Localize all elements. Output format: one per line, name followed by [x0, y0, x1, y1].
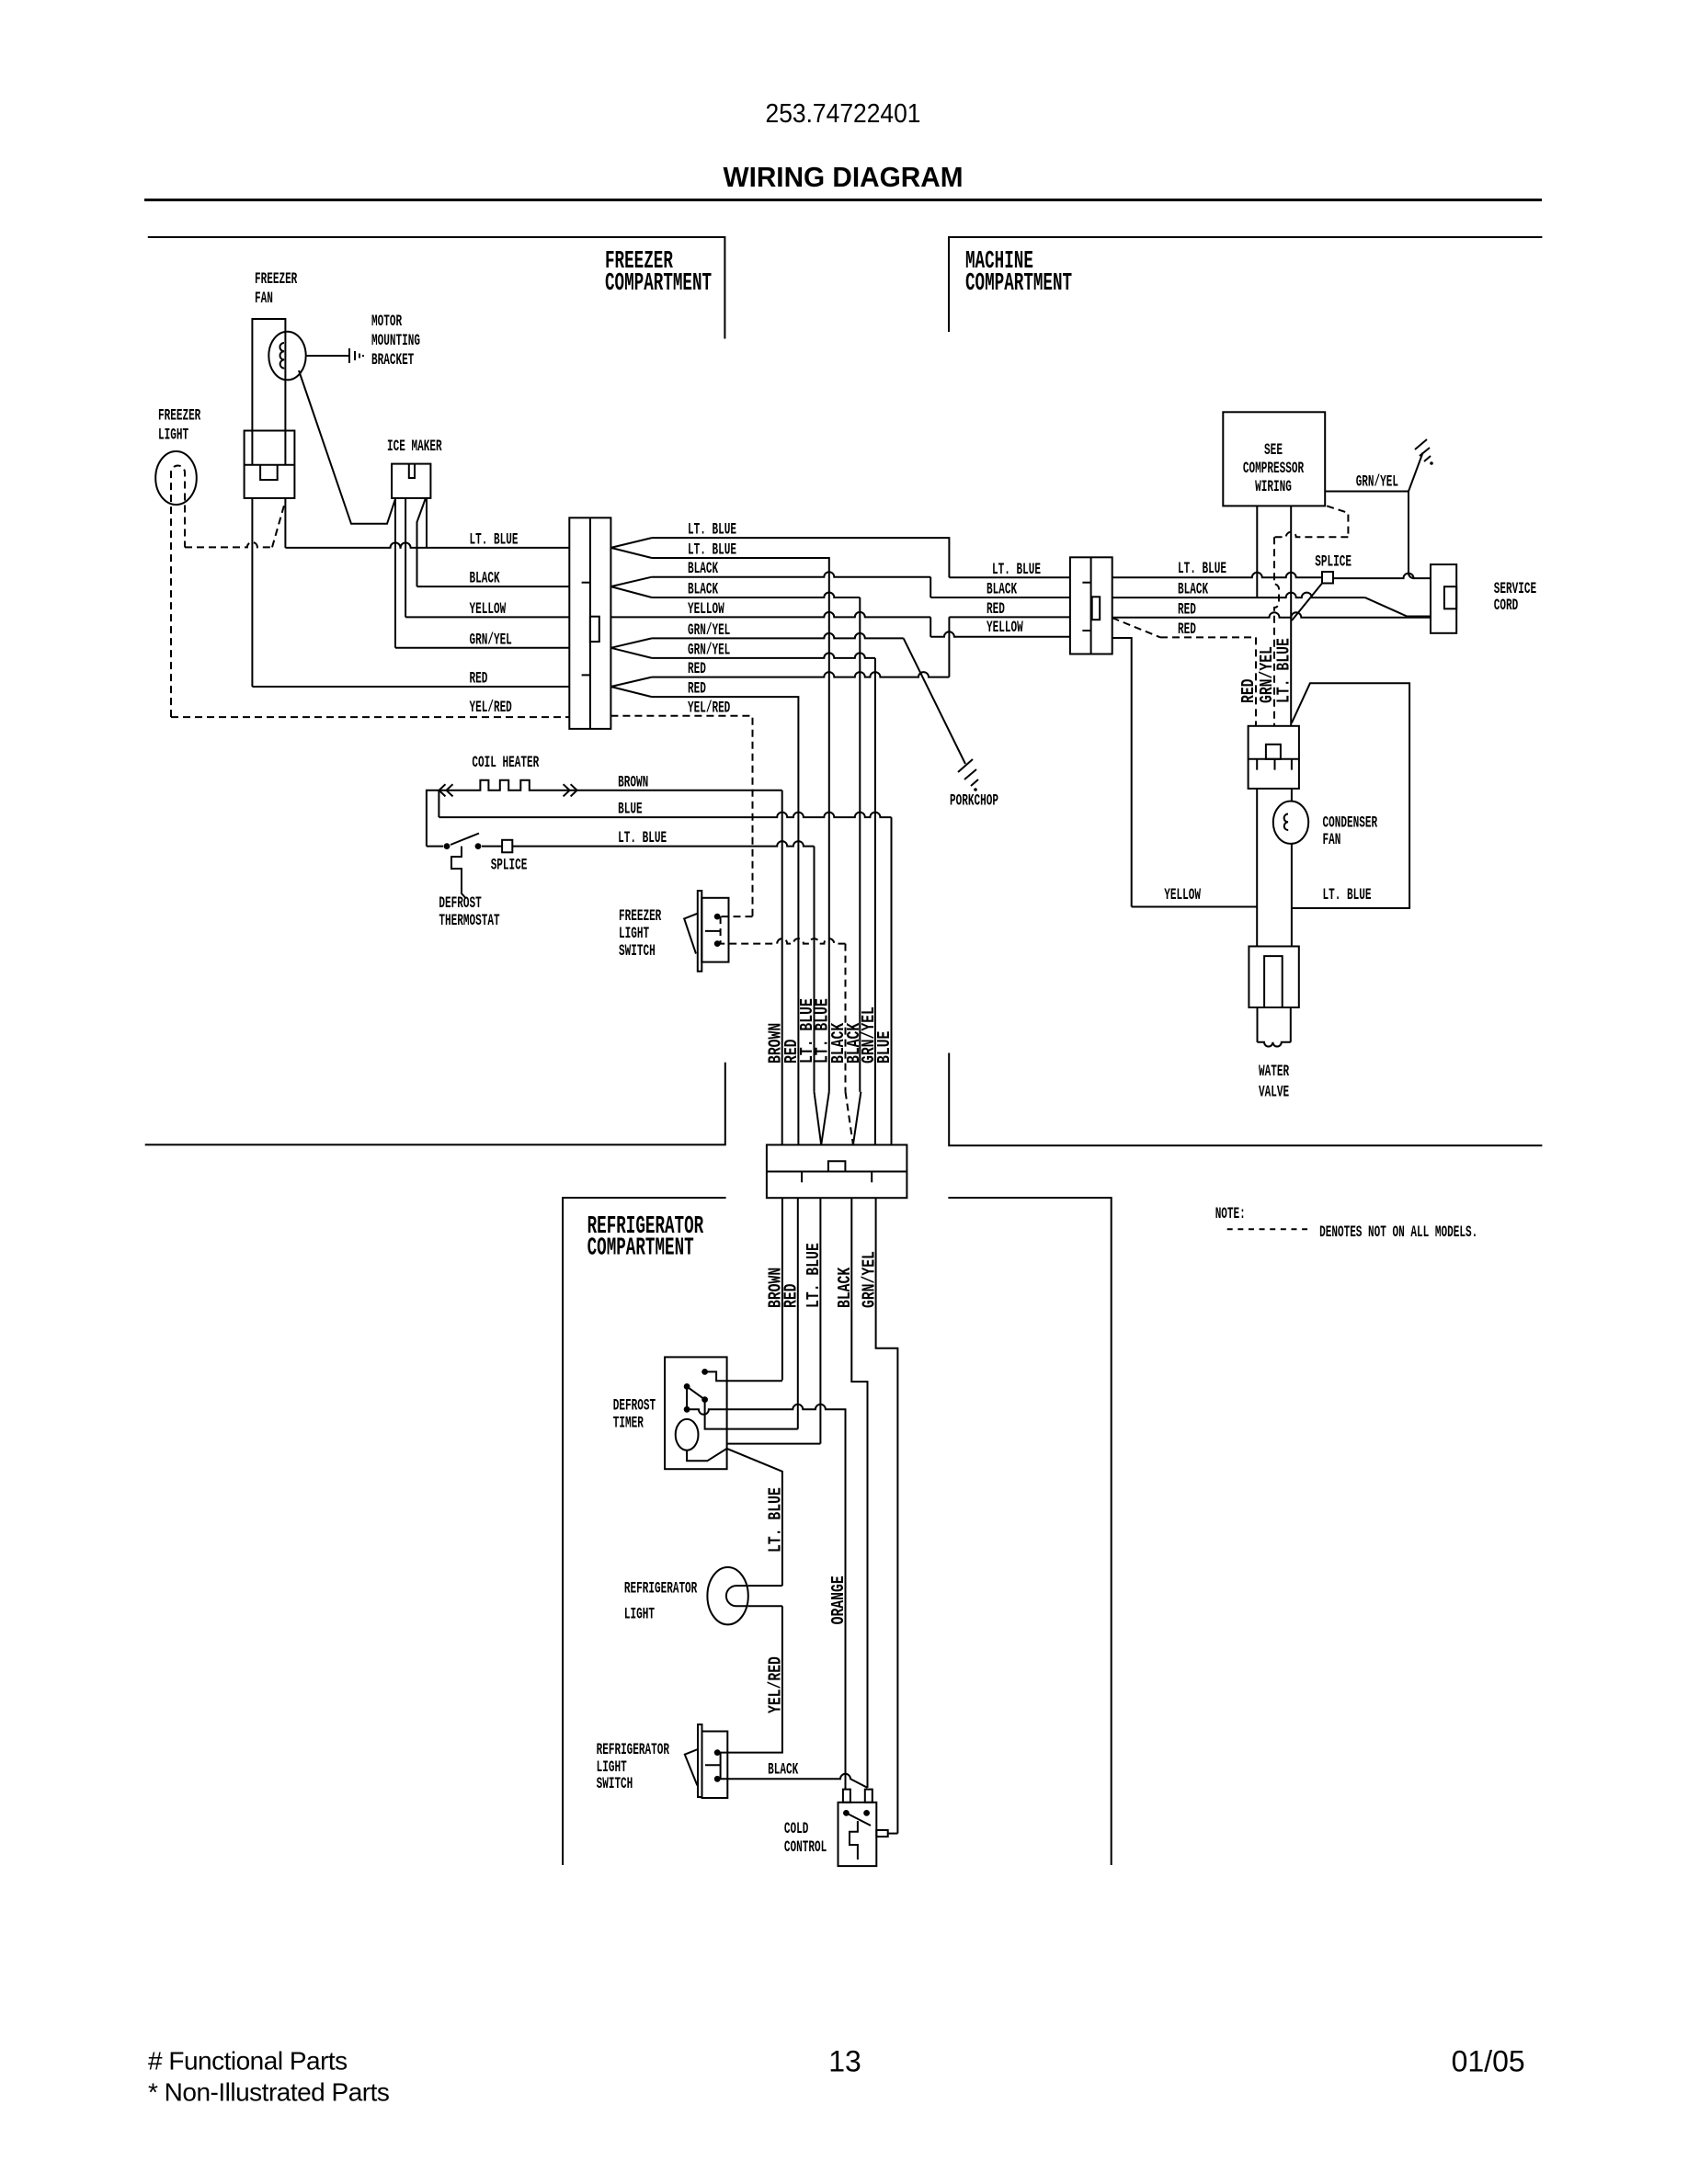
timer switch arm — [687, 1386, 705, 1399]
ice maker pin yellow — [405, 498, 406, 618]
splice diagonal to compressor — [1292, 584, 1322, 621]
freezer light bulb — [155, 451, 197, 505]
svg-text:RED: RED — [688, 680, 706, 699]
svg-text:BRACKET: BRACKET — [371, 351, 414, 370]
ice maker notch — [409, 464, 415, 478]
motor ground lead — [306, 355, 349, 357]
freezer light switch box — [701, 898, 728, 962]
refrigerator light switch plate — [698, 1724, 702, 1797]
cold control right pin — [876, 1830, 887, 1837]
svg-text:RED: RED — [688, 660, 706, 678]
yel/red dashed to switch — [717, 916, 752, 917]
red wire from relay — [251, 498, 253, 687]
svg-text:GRN/YEL: GRN/YEL — [1356, 473, 1398, 492]
svg-text:RED: RED — [1238, 678, 1259, 703]
svg-text:COMPRESSOR: COMPRESSOR — [1243, 460, 1304, 478]
svg-text:SWITCH: SWITCH — [619, 942, 656, 961]
svg-text:REFRIGERATOR: REFRIGERATOR — [624, 1580, 698, 1598]
refrigerator harness connector — [767, 1145, 907, 1199]
defrost timer box — [665, 1357, 727, 1469]
condenser fan loop — [1292, 683, 1409, 908]
svg-text:BLUE: BLUE — [618, 801, 643, 819]
light top stub — [748, 1585, 782, 1587]
black dashed from switch — [717, 938, 845, 944]
svg-text:FAN: FAN — [255, 290, 273, 308]
refrigerator light switch contacts — [714, 1749, 721, 1756]
svg-text:COMPARTMENT: COMPARTMENT — [605, 270, 712, 298]
ice maker pin grn/yel — [394, 498, 396, 648]
svg-text:RED: RED — [1178, 620, 1196, 639]
grn/yel wire down — [876, 1198, 898, 1833]
svg-text:VALVE: VALVE — [1259, 1084, 1289, 1102]
freezer light switch contacts — [714, 914, 721, 920]
svg-text:YEL/RED: YEL/RED — [470, 699, 512, 717]
chassis ground symbol — [1415, 439, 1431, 461]
svg-text:* Non-Illustrated Parts: * Non-Illustrated Parts — [148, 2078, 389, 2107]
porkchop ground symbol — [958, 759, 978, 786]
freezer fan body — [252, 319, 285, 465]
svg-text:WIRING: WIRING — [1255, 478, 1292, 496]
svg-text:RED: RED — [987, 600, 1005, 619]
timer motor — [676, 1419, 699, 1450]
svg-text:SPLICE: SPLICE — [491, 856, 528, 874]
svg-text:LIGHT: LIGHT — [597, 1758, 627, 1777]
svg-text:THERMOSTAT: THERMOSTAT — [439, 912, 499, 930]
svg-text:FREEZER: FREEZER — [619, 907, 661, 926]
motor ground symbol — [348, 348, 350, 363]
svg-text:13: 13 — [828, 2044, 861, 2077]
water valve solenoid — [1258, 1042, 1291, 1047]
chevron grn/yel pair — [610, 638, 652, 658]
svg-text:LT. BLUE: LT. BLUE — [1323, 886, 1372, 904]
machine harness connector — [1070, 557, 1112, 654]
svg-text:LT. BLUE: LT. BLUE — [992, 561, 1041, 579]
dashed wire to relay — [185, 542, 272, 548]
svg-text:BLACK: BLACK — [987, 581, 1017, 599]
svg-text:ORANGE: ORANGE — [828, 1575, 849, 1624]
svg-text:GRN/YEL: GRN/YEL — [688, 621, 730, 640]
fan relay box — [245, 431, 295, 498]
svg-text:YEL/RED: YEL/RED — [688, 699, 730, 717]
timer motor wire lt blue — [687, 1449, 782, 1586]
svg-text:BLACK: BLACK — [688, 560, 718, 578]
splice to service cord wire — [1333, 574, 1431, 578]
timer contact 2 — [684, 1383, 690, 1390]
chevron red pair — [610, 677, 652, 698]
splice square — [502, 840, 512, 853]
black wire down — [851, 1198, 867, 1788]
svg-text:YELLOW: YELLOW — [987, 619, 1023, 637]
svg-text:REFRIGERATOR: REFRIGERATOR — [597, 1741, 670, 1759]
timer contact3 wire to red — [705, 1400, 798, 1429]
yellow wire down — [1112, 638, 1132, 907]
yel/red dashed wire to connector — [171, 716, 569, 718]
service cord plug — [1431, 564, 1456, 633]
svg-text:253.74722401: 253.74722401 — [766, 99, 921, 129]
svg-text:BLACK: BLACK — [768, 1761, 798, 1780]
svg-text:GRN/YEL: GRN/YEL — [470, 631, 512, 649]
svg-text:LIGHT: LIGHT — [624, 1606, 655, 1624]
water valve legs — [1257, 1007, 1259, 1042]
water valve box — [1249, 947, 1298, 1008]
freezer fan motor coil — [279, 343, 284, 369]
machine compartment border bottom — [949, 1053, 1542, 1146]
svg-text:01/05: 01/05 — [1452, 2044, 1525, 2077]
svg-text:BLUE: BLUE — [874, 1031, 895, 1064]
svg-text:COMPARTMENT: COMPARTMENT — [965, 270, 1072, 298]
svg-text:TIMER: TIMER — [613, 1415, 644, 1433]
svg-text:RED: RED — [470, 670, 488, 688]
svg-text:GRN/YEL: GRN/YEL — [688, 641, 730, 659]
ice maker box — [392, 464, 430, 498]
svg-text:YELLOW: YELLOW — [470, 600, 507, 619]
timer contact 1 — [701, 1369, 708, 1375]
svg-text:CONDENSER: CONDENSER — [1323, 814, 1378, 833]
svg-text:LIGHT: LIGHT — [158, 427, 188, 445]
lt blue wire from relay — [284, 498, 286, 548]
refrigerator light switch flag — [685, 1749, 698, 1785]
heater chevron right — [564, 784, 577, 796]
svg-text:YELLOW: YELLOW — [1164, 886, 1201, 904]
yellow leg to valve — [1256, 789, 1258, 947]
timer contact 3 — [701, 1396, 708, 1403]
svg-text:YEL/RED: YEL/RED — [765, 1656, 785, 1713]
coil heater element — [427, 780, 782, 847]
svg-text:MOUNTING: MOUNTING — [371, 332, 420, 350]
svg-text:# Functional Parts: # Functional Parts — [148, 2047, 348, 2076]
title rule — [144, 199, 1542, 201]
svg-text:RED: RED — [1178, 601, 1196, 620]
orange wire from timer — [687, 1405, 845, 1790]
svg-text:SPLICE: SPLICE — [1315, 553, 1352, 572]
black chevron into lower connector — [846, 1092, 853, 1145]
fan relay notch — [260, 465, 278, 480]
svg-text:FREEZER: FREEZER — [255, 270, 297, 289]
lt blue chevron into lower connector — [815, 1092, 822, 1145]
svg-text:LT. BLUE: LT. BLUE — [688, 541, 736, 560]
red wire to timer — [797, 1198, 799, 1428]
cold control box — [838, 1803, 877, 1866]
svg-text:BROWN: BROWN — [618, 773, 648, 791]
freezer light switch flag — [684, 914, 698, 954]
svg-text:FREEZER: FREEZER — [158, 407, 200, 426]
lt blue vertical to compressor connector — [1290, 506, 1292, 725]
svg-text:LT. BLUE: LT. BLUE — [470, 530, 519, 549]
svg-text:BLACK: BLACK — [688, 581, 718, 599]
svg-text:WIRING DIAGRAM: WIRING DIAGRAM — [724, 162, 964, 193]
cold control pins — [843, 1790, 850, 1803]
svg-text:LT. BLUE: LT. BLUE — [766, 1487, 786, 1553]
freezer light filament dashed — [171, 466, 185, 718]
compressor connector — [1249, 726, 1299, 789]
svg-text:COIL HEATER: COIL HEATER — [472, 754, 539, 772]
condenser fan coil — [1284, 814, 1289, 831]
water valve inner — [1264, 956, 1283, 1007]
svg-text:COMPARTMENT: COMPARTMENT — [587, 1235, 694, 1263]
svg-text:BLACK: BLACK — [470, 570, 500, 588]
machine compartment border top — [949, 237, 1542, 332]
svg-text:NOTE:: NOTE: — [1215, 1205, 1246, 1223]
svg-text:PORKCHOP: PORKCHOP — [950, 792, 998, 811]
chevron lt blue pair — [610, 538, 652, 558]
svg-text:SERVICE: SERVICE — [1494, 580, 1536, 598]
svg-text:CORD: CORD — [1494, 597, 1519, 615]
heater chevron left — [439, 784, 453, 796]
svg-text:SWITCH: SWITCH — [597, 1775, 633, 1793]
cold control contacts — [843, 1810, 850, 1816]
light bottom stub yel/red — [748, 1605, 782, 1607]
refrigerator light switch box — [702, 1732, 728, 1799]
defrost thermostat symbol — [451, 847, 465, 898]
brown wire to timer — [781, 1198, 783, 1380]
svg-text:MOTOR: MOTOR — [371, 313, 402, 331]
svg-text:FAN: FAN — [1323, 831, 1341, 849]
svg-text:LT. BLUE: LT. BLUE — [1273, 638, 1294, 703]
svg-text:LT. BLUE: LT. BLUE — [688, 521, 736, 540]
freezer fan motor — [268, 332, 305, 381]
note dashed sample — [1227, 1228, 1307, 1230]
red wire to connector — [252, 686, 569, 688]
freezer light switch plate — [698, 891, 702, 972]
svg-text:LT. BLUE: LT. BLUE — [1178, 560, 1226, 578]
freezer harness connector — [569, 518, 610, 729]
refrigerator light filament — [726, 1586, 748, 1606]
svg-text:COLD: COLD — [784, 1820, 809, 1838]
condenser fan motor — [1273, 802, 1308, 844]
yellow wire to connector — [405, 616, 569, 618]
svg-text:CONTROL: CONTROL — [784, 1838, 827, 1857]
svg-text:SEE: SEE — [1264, 441, 1283, 460]
svg-text:YELLOW: YELLOW — [688, 600, 724, 619]
svg-text:WATER: WATER — [1259, 1063, 1289, 1081]
svg-text:ICE MAKER: ICE MAKER — [387, 438, 442, 456]
motor to ice maker wire — [299, 370, 395, 524]
timer contact 4 — [686, 1386, 688, 1409]
lt blue wire to connector — [285, 542, 569, 548]
refrigerator light bulb — [707, 1567, 747, 1624]
black wire to connector — [417, 586, 570, 587]
splice square machine — [1322, 572, 1333, 584]
svg-text:BLACK: BLACK — [1178, 581, 1208, 599]
yel/red wire to switch — [717, 1606, 782, 1752]
grn/yel dashed from compressor box — [1327, 506, 1348, 537]
freezer compartment border top — [148, 237, 725, 339]
ice maker pin black — [417, 498, 427, 586]
svg-text:LIGHT: LIGHT — [619, 925, 649, 943]
lt blue wire to timer — [819, 1198, 821, 1443]
lt blue wire into timer — [727, 1443, 821, 1445]
compressor wiring box — [1223, 412, 1325, 506]
compressor pin wire — [1256, 506, 1258, 597]
freezer compartment border bottom — [145, 1063, 725, 1145]
fan relay divider — [245, 464, 295, 466]
svg-text:DENOTES NOT ON ALL MODELS.: DENOTES NOT ON ALL MODELS. — [1319, 1223, 1477, 1242]
grn/yel wire to connector — [395, 647, 569, 649]
ice maker pin lt blue — [426, 498, 428, 548]
refrigerator compartment border — [563, 1198, 726, 1865]
porkchop lead — [904, 638, 965, 764]
svg-text:DEFROST: DEFROST — [613, 1397, 656, 1416]
svg-text:LT. BLUE: LT. BLUE — [618, 829, 667, 847]
cold control capillary — [850, 1821, 858, 1860]
chevron black pair — [610, 577, 652, 597]
svg-text:DEFROST: DEFROST — [439, 894, 481, 913]
condenser fan wires — [1291, 789, 1293, 802]
